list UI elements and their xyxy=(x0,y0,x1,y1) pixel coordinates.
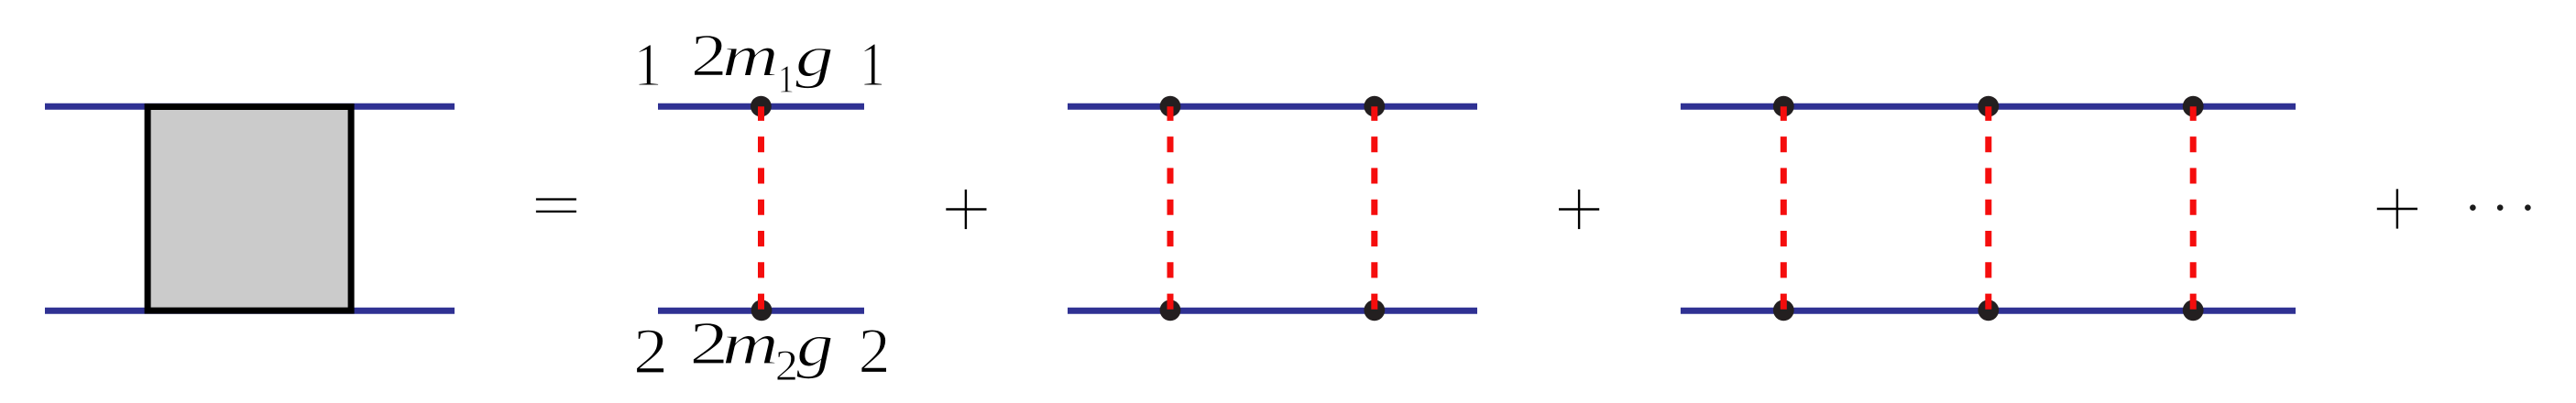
label 1 top-left xyxy=(639,45,659,85)
wire: left diagram top propagator line 1 xyxy=(45,103,455,110)
wire: diagram2 bottom line xyxy=(1068,308,1477,314)
wire: diagram3 top line xyxy=(1681,103,2296,110)
label 2 bottom-left xyxy=(637,330,664,373)
vertex dots diagram3 xyxy=(1773,96,1794,117)
ellipsis dots xyxy=(2470,204,2476,211)
wire: left diagram bottom propagator line 2 xyxy=(45,308,455,314)
label 1 top-right xyxy=(864,44,882,85)
blob: full scattering amplitude gray box xyxy=(148,107,351,311)
rung 2 red dashed xyxy=(1985,106,1991,310)
rung: red dashed gluon exchange xyxy=(758,106,764,310)
label 2 bottom-right xyxy=(861,330,887,373)
label 2 of 2m2g xyxy=(693,323,724,364)
vertex dot bottom xyxy=(751,300,773,321)
label m of 2m1g xyxy=(725,48,775,76)
wire: diagram1 top line xyxy=(658,103,864,110)
rung 3 red dashed xyxy=(2190,106,2197,310)
rung 1 red dashed xyxy=(1781,106,1787,310)
plus sign 3 xyxy=(2377,208,2417,210)
label g of 2m1g xyxy=(795,49,831,89)
plus sign 2 xyxy=(1559,208,1599,210)
rung 1 red dashed xyxy=(1167,106,1174,310)
label sub 1 of 2m1g xyxy=(781,66,793,93)
label m of 2m2g xyxy=(725,335,775,364)
wire: diagram2 top line xyxy=(1068,103,1477,110)
label sub 2 of 2m2g xyxy=(777,351,795,380)
plus sign 1 xyxy=(946,208,986,210)
equals sign xyxy=(536,198,576,200)
wire: diagram1 bottom line xyxy=(658,308,864,314)
vertex dots diagram2 xyxy=(1160,96,1181,117)
label g of 2m2g xyxy=(796,336,831,378)
label 2 of 2m1g xyxy=(694,36,723,76)
vertex dot top xyxy=(751,96,772,117)
rung 2 red dashed xyxy=(1371,106,1377,310)
wire: diagram3 bottom line xyxy=(1681,308,2296,314)
